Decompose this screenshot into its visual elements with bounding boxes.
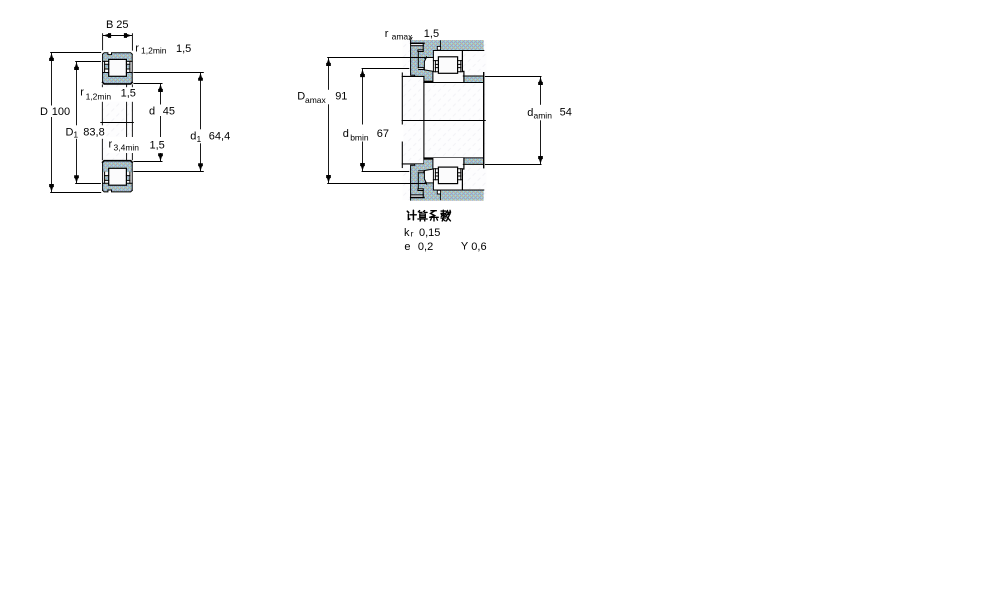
dimension dbmin extension lines <box>362 69 410 172</box>
label r amax 1,5 (top) <box>385 28 439 42</box>
svg-text:bmin: bmin <box>350 132 369 142</box>
svg-text:83,8: 83,8 <box>83 126 104 138</box>
label Damax 91 <box>295 90 348 105</box>
dimension d1 extension lines <box>133 73 203 172</box>
svg-text:64,4: 64,4 <box>209 131 230 143</box>
svg-text:25: 25 <box>116 19 128 31</box>
spacer outline (top) <box>463 75 483 77</box>
svg-text:r: r <box>135 42 139 54</box>
dimension D1 line with arrows <box>74 62 79 183</box>
upper inner ring (hatched) <box>103 73 133 84</box>
svg-text:0,6: 0,6 <box>471 241 486 253</box>
svg-text:0,15: 0,15 <box>419 227 440 239</box>
upper roller <box>109 59 127 76</box>
label e 0,2 <box>404 241 433 253</box>
svg-text:k: k <box>404 227 410 239</box>
dimension Damax line with arrows <box>326 58 331 183</box>
dimension d1 line with arrows <box>198 73 203 172</box>
label B 25 <box>106 19 129 31</box>
snap ring groove box + leader (bottom) <box>437 190 440 200</box>
svg-text:d: d <box>343 128 349 140</box>
dimension D extension lines <box>50 53 101 193</box>
svg-text:1,2min: 1,2min <box>86 91 112 101</box>
svg-text:100: 100 <box>52 106 70 118</box>
upper bearing outline <box>103 53 133 84</box>
svg-text:1,5: 1,5 <box>176 43 191 55</box>
upper cage bar left <box>105 64 109 69</box>
lower raceway and cage lines <box>103 172 133 183</box>
housing shoulder wall top-left (hatched) <box>411 40 434 76</box>
svg-text:D: D <box>66 126 74 138</box>
housing bottom-left outline <box>411 164 434 200</box>
dimension D1 extension lines <box>75 62 101 184</box>
svg-text:67: 67 <box>377 128 389 140</box>
lower outer ring (hatched) <box>103 183 133 192</box>
abutment washer bottom (hatched) <box>424 160 433 171</box>
lower roller <box>109 168 127 185</box>
svg-text:3,4min: 3,4min <box>114 143 140 153</box>
dimension D line with arrows <box>49 53 54 192</box>
svg-text:r: r <box>385 28 389 40</box>
roller (top, right view) <box>438 57 457 74</box>
svg-text:r: r <box>411 229 414 239</box>
dimension damin line with arrows <box>538 77 543 164</box>
label d1 64,4 <box>188 129 232 144</box>
label r3,4min 1,5 (row) with knockout <box>107 137 165 153</box>
svg-text:amax: amax <box>305 95 327 105</box>
dimension damin extension lines <box>485 77 542 165</box>
roller (bottom, right view) <box>438 167 457 184</box>
svg-text:e: e <box>404 241 410 253</box>
dimension dbmin line with arrows <box>360 69 365 171</box>
dimension B line with arrows <box>103 33 133 38</box>
svg-text:1,5: 1,5 <box>150 139 165 151</box>
shaft outline <box>402 73 483 168</box>
svg-text:d: d <box>190 131 196 143</box>
washer top black band (bottom) <box>424 158 434 160</box>
svg-text:d: d <box>527 107 533 119</box>
svg-text:r: r <box>80 87 84 99</box>
label damin 54 <box>524 105 576 121</box>
housing top band (hatched) <box>411 40 484 50</box>
air gap white (top corner) <box>425 58 434 71</box>
label 计算系数 (hand-drawn strokes) <box>407 210 450 221</box>
right view axis centerline <box>402 120 486 122</box>
svg-text:1: 1 <box>197 134 202 144</box>
shaft abutment spacer top (hatched) <box>464 76 483 82</box>
svg-text:45: 45 <box>163 106 175 118</box>
dimension d extension lines <box>133 84 162 162</box>
label r1,2min 1,5 (top row) <box>135 42 191 55</box>
svg-text:d: d <box>149 106 155 118</box>
label r1,2min 1,5 (middle row) with knockout <box>79 87 138 102</box>
label D 100 <box>39 106 72 119</box>
air gap white (bottom corner) <box>425 170 434 183</box>
housing bottom band (hatched) <box>411 190 484 200</box>
housing top-left outline <box>411 40 434 76</box>
svg-text:amax: amax <box>392 32 414 42</box>
spacer outline (bottom) <box>463 163 483 165</box>
svg-text:amin: amin <box>534 110 553 120</box>
dimension B extension lines <box>103 33 133 50</box>
lower cage bar right <box>127 176 130 181</box>
shaft abutment spacer bottom (hatched) <box>464 158 483 164</box>
label kr 0,15 <box>404 227 440 239</box>
bearing outline (bottom half, right view) <box>433 158 484 190</box>
svg-text:r: r <box>109 139 113 151</box>
svg-text:Y: Y <box>461 241 469 253</box>
white relief slots in housing shoulder (top) <box>411 44 424 70</box>
upper raceway and cage lines <box>103 61 133 72</box>
dimension d line with arrows <box>158 84 163 161</box>
washer bottom black band (top) <box>424 81 434 83</box>
white relief slots in housing shoulder (bottom) <box>411 171 424 197</box>
lower cage bar left <box>105 176 109 181</box>
left view axis centerline <box>100 122 134 124</box>
abutment washer top (hatched) <box>424 70 433 81</box>
svg-text:54: 54 <box>560 107 572 119</box>
svg-text:91: 91 <box>335 90 347 102</box>
housing shoulder wall bottom-left (hatched) <box>411 164 434 200</box>
snap ring groove box + leader (top) <box>437 40 440 50</box>
svg-text:D: D <box>40 106 48 118</box>
bearing white body (bottom half, right view) <box>433 158 464 190</box>
svg-text:B: B <box>106 19 113 31</box>
leader for r amax to housing corner <box>409 37 412 40</box>
lower inner ring (hatched) <box>103 161 133 172</box>
lower bearing outline <box>103 161 133 192</box>
upper cage bar right <box>127 64 130 69</box>
svg-text:0,2: 0,2 <box>418 241 433 253</box>
figure tint background <box>402 40 486 200</box>
label dbmin 67 <box>342 125 404 143</box>
svg-text:1,5: 1,5 <box>121 88 136 100</box>
label Y 0,6 <box>461 241 487 253</box>
svg-text:1,5: 1,5 <box>424 28 439 40</box>
figure tint background <box>102 53 133 192</box>
middle zone silhouette lines <box>102 84 132 160</box>
label d 45 <box>148 105 178 118</box>
upper outer ring (hatched) <box>103 53 133 62</box>
svg-text:1,2min: 1,2min <box>141 46 167 56</box>
svg-text:D: D <box>297 90 305 102</box>
label D1 83,8 <box>64 125 106 139</box>
bearing white body (top half, right view) <box>433 51 464 83</box>
bearing outline (top half, right view) <box>433 50 484 82</box>
svg-text:1: 1 <box>73 130 78 140</box>
dimension Damax extension lines with ticks <box>327 56 427 184</box>
